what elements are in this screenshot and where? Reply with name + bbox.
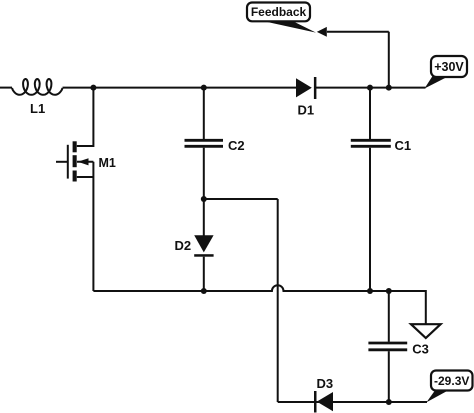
node C1 / bottom rail [367, 288, 373, 294]
M1 channel bar drain [73, 141, 77, 152]
M1 body arrowhead [78, 158, 89, 165]
svg-text:+30V: +30V [434, 60, 464, 74]
C3 plate top [368, 342, 407, 345]
C1 plate top [351, 139, 391, 142]
node C3 / negative rail [386, 399, 392, 405]
M1 channel bar source [73, 171, 77, 182]
wire left lead to L1 [0, 87, 12, 89]
svg-text:D1: D1 [298, 103, 315, 118]
wire bottom negative rail [278, 401, 427, 403]
+30V callout tail [425, 75, 449, 89]
svg-text:-29.3V: -29.3V [434, 374, 469, 388]
capacitor C2 [185, 88, 224, 199]
svg-text:C3: C3 [412, 342, 429, 357]
svg-text:M1: M1 [99, 156, 116, 170]
ground [411, 324, 441, 338]
wire feedback horizontal [327, 31, 389, 33]
feedback arrowhead [317, 27, 327, 37]
-29.3V callout box [431, 371, 473, 391]
wire C3 bottom lead [388, 351, 390, 402]
diode D1 [296, 77, 316, 99]
inductor L1 [12, 79, 63, 95]
node C3 / bottom rail [386, 288, 392, 294]
svg-text:D3: D3 [317, 376, 334, 391]
C1 plate bottom [351, 145, 391, 148]
M1 source lead [77, 176, 94, 178]
node junction top rail / C2 [201, 85, 207, 91]
wire feedback tap vertical [388, 32, 390, 88]
wire M1 source vertical to bottom rail [92, 162, 94, 291]
wire C2 bottom lead [203, 148, 205, 199]
svg-text:Feedback: Feedback [251, 5, 307, 19]
svg-text:C2: C2 [228, 138, 245, 153]
wire to ground [389, 291, 426, 324]
feedback callout tail [261, 21, 316, 33]
wire D1 cathode to +30V terminal [315, 87, 426, 89]
svg-text:L1: L1 [30, 101, 45, 116]
wire C2 node to right [204, 198, 278, 200]
wire M1 drain vertical [77, 88, 94, 146]
+30V callout box [431, 56, 467, 77]
wire L1 to D1 anode (top rail) [63, 87, 297, 89]
M1 gate line [67, 145, 69, 179]
-29.3V callout tail [427, 389, 449, 402]
wire C1 top lead [369, 88, 371, 139]
C2 plate top [185, 139, 224, 142]
capacitor C1 [351, 88, 391, 291]
node junction top rail / M1 drain [90, 85, 96, 91]
svg-text:D2: D2 [175, 238, 192, 253]
bottom rail with hop over crossing wire [93, 285, 425, 291]
capacitor C3 [368, 291, 407, 402]
svg-text:C1: C1 [395, 138, 412, 153]
transistor M1 [56, 141, 93, 181]
node C2 bottom junction [201, 196, 207, 202]
wire C3 top lead [388, 291, 390, 342]
M1 gate stub [56, 161, 68, 163]
wire C1 bottom lead [369, 148, 371, 291]
wire vertical crossing down to D3 rail [277, 199, 279, 402]
wire D2 anode lead [203, 199, 205, 236]
feedback callout box [247, 3, 310, 22]
wire C2 top lead [203, 88, 205, 139]
diode D2 [194, 199, 213, 291]
node D2 / bottom rail [201, 288, 207, 294]
node junction top rail / feedback tap [386, 85, 392, 91]
M1 channel bar body [73, 155, 77, 167]
node junction top rail / C1 [367, 85, 373, 91]
diode D3 [314, 391, 333, 413]
wire D2 cathode lead [203, 257, 205, 291]
M1 body line with arrow [77, 161, 93, 163]
C3 plate bottom [368, 348, 407, 351]
C2 plate bottom [185, 145, 224, 148]
